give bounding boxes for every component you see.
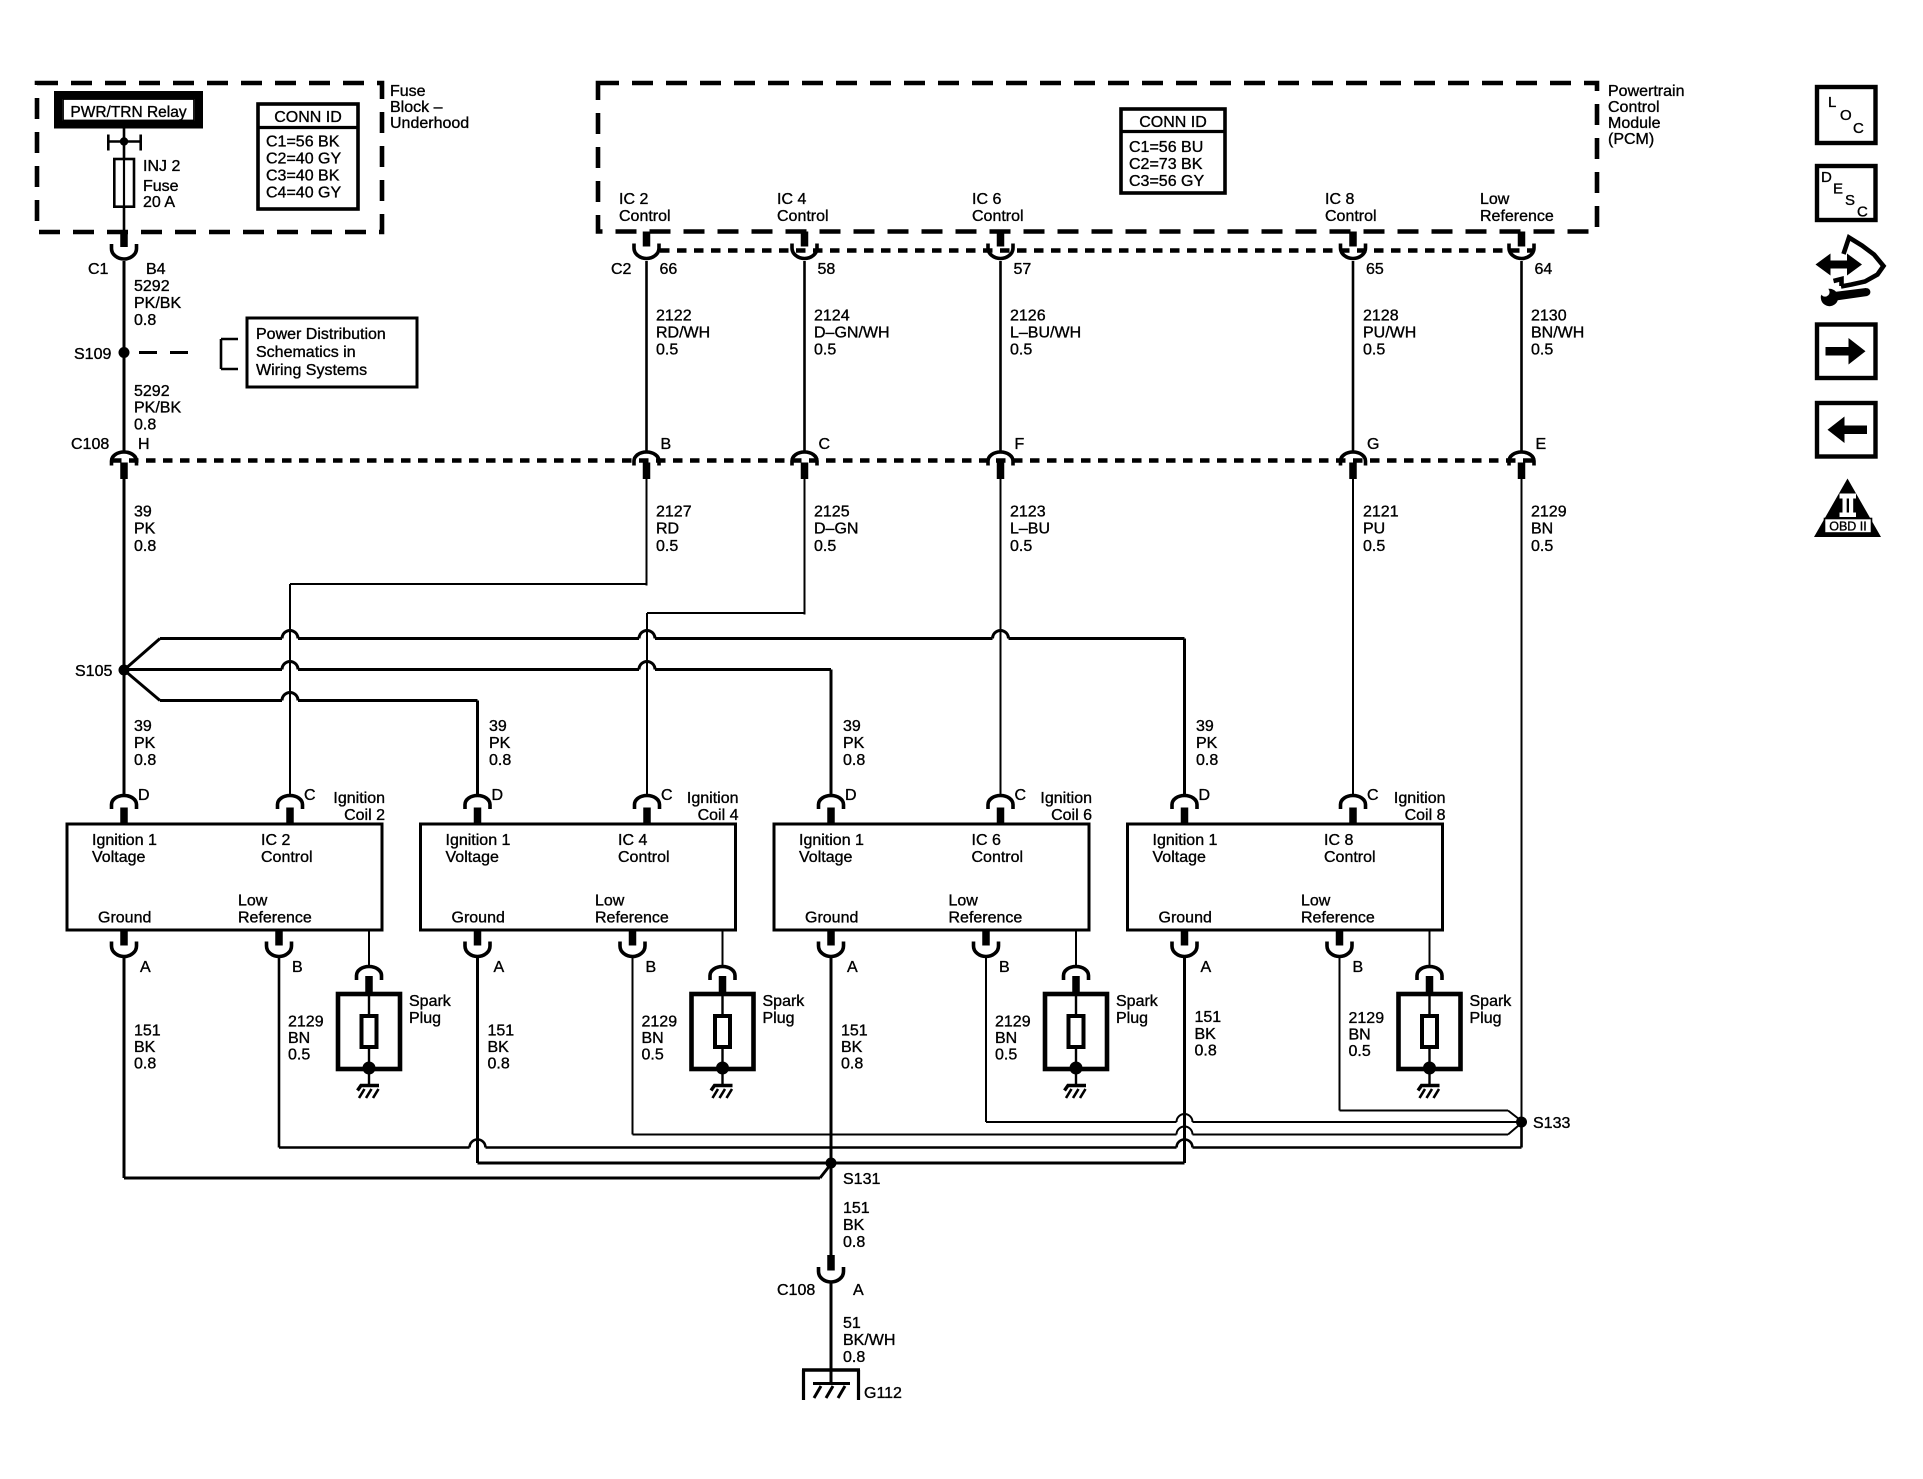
coil 2 terminal D connector [112,796,137,809]
S131 ground bus [478,1162,1185,1165]
coil 8 terminal D connector [1172,796,1197,809]
svg-text:Ignition: Ignition [687,790,739,807]
svg-text:IC 2: IC 2 [619,191,648,208]
spark plug 2 [692,994,754,1069]
icon LOC box [1817,87,1876,143]
svg-text:Spark: Spark [409,993,452,1010]
wire 2129 BN from PCM low reference [1521,478,1523,1122]
wire coil 4 to spark plug [722,930,724,965]
svg-text:Ignition: Ignition [1040,790,1092,807]
wire 2123 L-BU [1000,478,1002,795]
wire 2129 BN coil 2 to S133 [278,958,281,1148]
svg-text:S109: S109 [74,346,111,363]
svg-text:0.8: 0.8 [843,1234,865,1251]
svg-text:G112: G112 [864,1385,902,1402]
ignition coil 2 box [67,824,382,930]
svg-text:A: A [847,959,858,976]
svg-text:0.8: 0.8 [841,1055,863,1072]
coil 6 terminal B connector [982,930,990,946]
svg-text:RD: RD [656,521,679,538]
svg-text:Wiring Systems: Wiring Systems [256,362,367,379]
fuse F INJ 2 20A [114,159,134,207]
svg-text:Coil 6: Coil 6 [1051,807,1092,824]
connector C108 pin E [1509,452,1534,466]
svg-text:BN: BN [288,1030,310,1047]
wire coil 6 to spark plug [1075,930,1077,965]
svg-text:D: D [492,787,504,804]
svg-text:57: 57 [1014,261,1032,278]
svg-text:B4: B4 [146,261,166,278]
svg-text:C: C [819,436,831,453]
svg-text:66: 66 [660,261,678,278]
splice S105 [119,665,130,676]
svg-text:Ground: Ground [805,910,858,927]
svg-text:C: C [304,787,316,804]
svg-text:BK: BK [843,1217,865,1234]
wire 151 BK coil 6 ground to S131 [830,958,833,1163]
svg-text:PU/WH: PU/WH [1363,325,1416,342]
svg-text:BK: BK [488,1039,510,1056]
svg-text:A: A [1201,959,1212,976]
svg-text:Low: Low [1301,893,1331,910]
ground G112 [802,1368,860,1372]
coil 8 terminal B connector [1336,930,1344,946]
svg-text:Control: Control [1608,99,1660,116]
svg-text:IC 2: IC 2 [261,832,290,849]
svg-text:BK/WH: BK/WH [843,1332,895,1349]
svg-text:0.5: 0.5 [814,342,836,359]
wire 151 BK coil 2 ground to S131 [123,958,126,1178]
svg-text:39: 39 [1196,718,1214,735]
spark plug 3 connector [1064,967,1089,980]
svg-text:Plug: Plug [1470,1010,1502,1027]
svg-text:C1=56 BU: C1=56 BU [1129,139,1203,156]
svg-text:BN/WH: BN/WH [1531,325,1584,342]
svg-text:Ignition 1: Ignition 1 [446,832,511,849]
svg-text:BK: BK [841,1039,863,1056]
svg-text:D–GN: D–GN [814,521,858,538]
bracket [220,339,223,369]
svg-text:2121: 2121 [1363,504,1399,521]
svg-text:151: 151 [134,1023,161,1040]
splice S133 [1516,1117,1527,1128]
note box Power Distribution Schematics in Wiring Systems [247,318,417,387]
connector C1 pin B4 [120,232,128,247]
svg-text:S133: S133 [1533,1115,1570,1132]
svg-text:Control: Control [972,208,1024,225]
svg-text:Ground: Ground [452,910,505,927]
svg-text:B: B [646,959,657,976]
svg-text:Spark: Spark [763,993,806,1010]
icon OBD II triangle [1814,479,1881,538]
svg-text:Powertrain: Powertrain [1608,83,1684,100]
connector C108 pin A [827,1255,835,1271]
connector C108 pin F [988,452,1013,466]
svg-text:C108: C108 [777,1282,815,1299]
spark plug 2 connector [710,967,735,980]
wire 2129 BN coil 6 to S133 [985,958,987,1122]
svg-text:Reference: Reference [1301,910,1375,927]
svg-text:Plug: Plug [763,1010,795,1027]
svg-text:Fuse: Fuse [390,83,426,100]
svg-text:0.5: 0.5 [1531,342,1553,359]
svg-text:C2=73 BK: C2=73 BK [1129,156,1203,173]
svg-text:A: A [494,959,505,976]
spark plug 4 ground [1428,1068,1430,1085]
ignition coil 8 box [1128,824,1443,930]
svg-text:5292: 5292 [134,383,170,400]
svg-text:D: D [845,787,857,804]
svg-text:Ignition: Ignition [333,790,385,807]
coil 6 terminal C connector [988,796,1013,809]
splice S109 [119,347,130,358]
coil 8 terminal C connector [1341,796,1366,809]
svg-text:Ground: Ground [1159,910,1212,927]
svg-text:C108: C108 [71,436,109,453]
svg-text:0.8: 0.8 [1196,752,1218,769]
svg-text:PK: PK [134,521,156,538]
svg-text:BN: BN [1349,1027,1371,1044]
icon forward arrow box [1817,325,1876,379]
svg-text:Fuse: Fuse [143,178,179,195]
coil 2 terminal A connector [120,930,128,946]
svg-text:O: O [1840,107,1852,124]
connector C2 pin 65 [1349,232,1357,247]
spark plug 3 [1045,994,1107,1069]
svg-text:C4=40 GY: C4=40 GY [266,185,341,202]
svg-text:IC 8: IC 8 [1324,832,1353,849]
svg-text:5292: 5292 [134,278,170,295]
wire 2122 RD/WH [645,261,648,451]
svg-text:PWR/TRN Relay: PWR/TRN Relay [70,104,187,121]
svg-text:L–BU/WH: L–BU/WH [1010,325,1081,342]
wire 2130 BN/WH [1520,261,1523,451]
svg-text:151: 151 [1195,1009,1222,1026]
coil 4 terminal B connector [629,930,637,946]
svg-text:0.5: 0.5 [814,538,836,555]
svg-text:Low: Low [238,893,268,910]
icon DESC box [1817,166,1876,220]
svg-text:Control: Control [261,849,313,866]
svg-text:0.8: 0.8 [134,417,156,434]
svg-text:0.8: 0.8 [134,312,156,329]
svg-text:D: D [138,787,150,804]
svg-text:B: B [1353,959,1364,976]
svg-text:IC 6: IC 6 [972,832,1001,849]
connector C2 pin 64 [1518,232,1526,247]
svg-text:A: A [140,959,151,976]
svg-text:Voltage: Voltage [446,849,499,866]
coil 4 terminal C connector [635,796,660,809]
spark plug 1 connector [357,967,382,980]
spark plug 4 connector [1417,967,1442,980]
svg-text:20 A: 20 A [143,194,175,211]
spark plug 3 ground [1075,1068,1077,1085]
svg-text:0.8: 0.8 [134,752,156,769]
spark plug 4 [1399,994,1461,1069]
svg-text:0.5: 0.5 [656,342,678,359]
wire relay to fuse [123,124,126,160]
svg-text:S131: S131 [843,1171,880,1188]
svg-text:C: C [1367,787,1379,804]
svg-text:BN: BN [642,1030,664,1047]
svg-text:C2: C2 [611,261,632,278]
splice S131 [826,1158,837,1169]
connector line C108 short dashes [112,458,1534,463]
svg-text:0.5: 0.5 [1363,538,1385,555]
wire 39 PK upper segment [123,478,126,670]
table CONN ID (fuse block) [258,104,358,209]
svg-text:Spark: Spark [1470,993,1513,1010]
wire coil 8 to spark plug [1429,930,1431,965]
svg-text:2125: 2125 [814,504,850,521]
svg-text:0.8: 0.8 [488,1055,510,1072]
svg-text:B: B [999,959,1010,976]
svg-text:0.5: 0.5 [1349,1043,1371,1060]
coil 6 terminal D connector [819,796,844,809]
svg-text:2122: 2122 [656,308,692,325]
wire 39 PK branch to ignition coil 6 [124,668,282,671]
svg-text:0.8: 0.8 [134,1055,156,1072]
icon reprogram (arrows and wrench) [1816,254,1863,276]
svg-text:2124: 2124 [814,308,850,325]
wire 39 PK branch to ignition coil 8 [124,639,160,671]
wire 151 BK coil 4 ground to S131 [476,958,479,1163]
wire 51 BK/WH to G112 [830,1283,833,1384]
svg-text:H: H [138,436,150,453]
svg-text:Reference: Reference [595,910,669,927]
svg-text:0.8: 0.8 [843,752,865,769]
wire 5292 PK/BK upper [123,261,126,352]
svg-text:Underhood: Underhood [390,115,469,132]
wire 39 PK to ignition coil 2 [123,670,126,795]
wire 2121 PU [1352,478,1354,795]
svg-text:IC 4: IC 4 [777,191,806,208]
svg-text:Reference: Reference [949,910,1023,927]
svg-text:Plug: Plug [409,1010,441,1027]
svg-text:2130: 2130 [1531,308,1567,325]
svg-text:Ignition 1: Ignition 1 [92,832,157,849]
svg-text:C1=56 BK: C1=56 BK [266,134,340,151]
svg-text:2126: 2126 [1010,308,1046,325]
connector line C2 (PCM) short dashes [660,248,1534,253]
svg-text:OBD II: OBD II [1829,520,1867,534]
wire 2128 PU/WH [1352,261,1355,451]
svg-text:0.5: 0.5 [1010,538,1032,555]
svg-text:Coil 2: Coil 2 [344,807,385,824]
ignition coil 6 box [774,824,1089,930]
svg-text:Ignition 1: Ignition 1 [1153,832,1218,849]
svg-text:0.8: 0.8 [843,1349,865,1366]
connector C108 pin H [112,452,137,466]
connector C108 pin C [792,452,817,466]
spark plug 2 ground [721,1068,723,1085]
svg-text:0.5: 0.5 [1531,538,1553,555]
svg-text:B: B [661,436,672,453]
svg-text:D: D [1821,169,1832,186]
svg-text:0.5: 0.5 [642,1047,664,1064]
svg-text:L–BU: L–BU [1010,521,1050,538]
wire 5292 PK/BK lower [123,353,126,451]
wire 2129 BN coil 8 to S133 [1339,958,1341,1111]
svg-text:Control: Control [1325,208,1377,225]
svg-text:2127: 2127 [656,504,692,521]
svg-text:BK: BK [134,1039,156,1056]
svg-text:A: A [853,1282,864,1299]
svg-text:Voltage: Voltage [92,849,145,866]
svg-text:Ignition: Ignition [1394,790,1446,807]
svg-text:2128: 2128 [1363,308,1399,325]
svg-text:C: C [1853,120,1864,137]
svg-text:D–GN/WH: D–GN/WH [814,325,890,342]
svg-text:Low: Low [1480,191,1510,208]
svg-text:51: 51 [843,1315,861,1332]
spark plug 1 ground [368,1068,370,1085]
icon back arrow box [1817,403,1876,457]
svg-text:Coil 8: Coil 8 [1405,807,1446,824]
coil 4 terminal D connector [465,796,490,809]
svg-text:IC 4: IC 4 [618,832,647,849]
svg-text:2129: 2129 [642,1013,678,1030]
wire 2125 D-GN [804,478,806,615]
svg-text:CONN ID: CONN ID [274,109,342,126]
svg-text:64: 64 [1535,261,1553,278]
wire 2126 L-BU/WH [999,261,1002,451]
svg-text:PK: PK [1196,735,1218,752]
svg-text:Reference: Reference [238,910,312,927]
wire 2124 D-GN/WH [803,261,806,451]
svg-text:F: F [1015,436,1025,453]
svg-text:Low: Low [949,893,979,910]
svg-text:Ignition 1: Ignition 1 [799,832,864,849]
svg-text:E: E [1536,436,1547,453]
svg-text:PK: PK [489,735,511,752]
svg-text:Reference: Reference [1480,208,1554,225]
svg-text:C: C [661,787,673,804]
connector C108 pin G [1341,452,1366,466]
connector C2 pin 58 [801,232,809,247]
svg-text:S: S [1845,192,1855,209]
svg-text:RD/WH: RD/WH [656,325,710,342]
svg-text:151: 151 [488,1023,515,1040]
svg-text:C1: C1 [88,261,109,278]
svg-text:Low: Low [595,893,625,910]
svg-text:CONN ID: CONN ID [1139,114,1207,131]
wire 151 BK S131 to C108 [830,1163,833,1256]
svg-text:0.5: 0.5 [1363,342,1385,359]
svg-text:0.5: 0.5 [1010,342,1032,359]
svg-text:0.5: 0.5 [995,1047,1017,1064]
svg-text:C3=40 BK: C3=40 BK [266,168,340,185]
wire fuse to C1 [123,207,126,232]
coil 2 terminal C connector [278,796,303,809]
coil 2 terminal B connector [275,930,283,946]
svg-text:Control: Control [972,849,1024,866]
dashed reference link to power distribution note [139,351,157,354]
svg-text:C2=40 GY: C2=40 GY [266,151,341,168]
svg-text:L: L [1828,94,1836,111]
svg-text:58: 58 [818,261,836,278]
svg-text:IC 6: IC 6 [972,191,1001,208]
svg-text:39: 39 [843,718,861,735]
svg-text:0.5: 0.5 [656,538,678,555]
svg-text:Block –: Block – [390,99,443,116]
svg-text:INJ 2: INJ 2 [143,158,180,175]
ignition coil 4 box [421,824,736,930]
coil 4 terminal A connector [474,930,482,946]
relay terminal bracket [108,140,141,143]
svg-text:151: 151 [843,1200,870,1217]
wire 2129 BN coil 4 to S133 [632,958,634,1135]
connector C108 pin B [634,452,659,466]
svg-text:2129: 2129 [1349,1010,1385,1027]
svg-text:B: B [292,959,303,976]
svg-text:D: D [1199,787,1211,804]
connector C2 pin 66 [643,232,651,247]
spark plug 1 [338,994,400,1069]
svg-text:0.8: 0.8 [134,538,156,555]
svg-text:151: 151 [841,1023,868,1040]
svg-text:2123: 2123 [1010,504,1046,521]
svg-text:PK/BK: PK/BK [134,295,181,312]
svg-text:Spark: Spark [1116,993,1159,1010]
svg-text:(PCM): (PCM) [1608,131,1654,148]
svg-text:PU: PU [1363,521,1385,538]
svg-text:Coil 4: Coil 4 [698,807,739,824]
svg-text:Ground: Ground [98,910,151,927]
svg-text:Control: Control [777,208,829,225]
fuse block - underhood dashed box [37,83,382,232]
svg-text:2129: 2129 [288,1013,324,1030]
svg-text:BN: BN [1531,521,1553,538]
svg-text:39: 39 [134,504,152,521]
svg-text:Voltage: Voltage [1153,849,1206,866]
coil 8 terminal A connector [1181,930,1189,946]
svg-text:Control: Control [1324,849,1376,866]
svg-text:Control: Control [618,849,670,866]
svg-text:Schematics in: Schematics in [256,344,356,361]
svg-text:0.8: 0.8 [1195,1043,1217,1060]
svg-text:S105: S105 [75,663,112,680]
svg-text:E: E [1833,181,1843,198]
wire 2127 RD [646,478,648,586]
svg-text:Voltage: Voltage [799,849,852,866]
svg-text:C3=56 GY: C3=56 GY [1129,173,1204,190]
svg-text:G: G [1367,436,1379,453]
svg-text:Power Distribution: Power Distribution [256,326,386,343]
svg-text:BN: BN [995,1030,1017,1047]
svg-text:2129: 2129 [1531,504,1567,521]
svg-text:39: 39 [134,718,152,735]
svg-text:PK: PK [843,735,865,752]
relay K PWR/TRN Relay box [58,95,199,125]
svg-text:PK/BK: PK/BK [134,400,181,417]
table CONN ID (PCM) [1121,109,1225,193]
svg-text:2129: 2129 [995,1013,1031,1030]
svg-text:BK: BK [1195,1026,1217,1043]
svg-text:Plug: Plug [1116,1010,1148,1027]
coil 6 terminal A connector [827,930,835,946]
svg-text:0.5: 0.5 [288,1047,310,1064]
connector C2 pin 57 [997,232,1005,247]
svg-text:IC 8: IC 8 [1325,191,1354,208]
svg-text:Control: Control [619,208,671,225]
wire 151 BK coil 8 ground to S131 [1183,958,1186,1163]
PCM dashed box Powertrain Control Module [598,83,1597,232]
wire 39 PK branch to ignition coil 4 [124,670,160,701]
svg-text:PK: PK [134,735,156,752]
svg-text:Module: Module [1608,115,1661,132]
